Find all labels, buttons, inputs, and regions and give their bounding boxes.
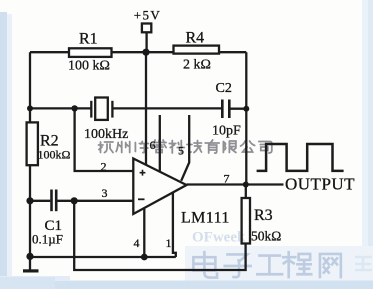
svg-text:7: 7 xyxy=(224,172,230,186)
svg-text:R4: R4 xyxy=(186,30,205,47)
svg-text:1: 1 xyxy=(166,236,172,250)
svg-text:0.1µF: 0.1µF xyxy=(32,232,63,247)
svg-text:R3: R3 xyxy=(254,207,273,224)
svg-text:10pF: 10pF xyxy=(212,124,241,139)
svg-text:100 kΩ: 100 kΩ xyxy=(68,59,110,74)
svg-text:5: 5 xyxy=(178,144,184,158)
svg-text:2 kΩ: 2 kΩ xyxy=(183,58,211,73)
svg-text:+5V: +5V xyxy=(134,8,161,23)
svg-text:100kΩ: 100kΩ xyxy=(38,148,71,162)
svg-text:100kHz: 100kHz xyxy=(84,127,128,142)
svg-text:LM111: LM111 xyxy=(181,210,230,227)
svg-text:50kΩ: 50kΩ xyxy=(251,229,281,244)
svg-text:6: 6 xyxy=(150,138,156,152)
svg-text:OUTPUT: OUTPUT xyxy=(285,175,355,194)
svg-text:C2: C2 xyxy=(216,81,232,96)
svg-text:3: 3 xyxy=(102,186,108,200)
svg-text:2: 2 xyxy=(101,159,107,173)
svg-text:OFweek: OFweek xyxy=(192,230,246,246)
svg-text:4: 4 xyxy=(134,236,140,250)
svg-text:R1: R1 xyxy=(79,31,98,48)
